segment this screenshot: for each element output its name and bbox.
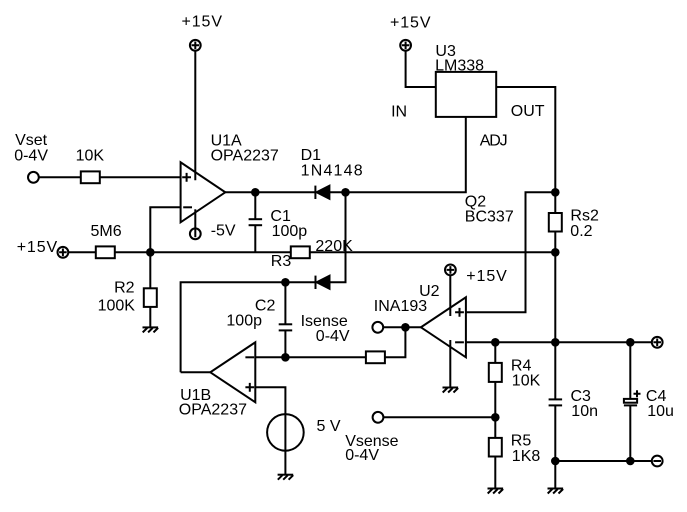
terminal output minus [652,456,663,467]
wire R2 to ground [149,307,151,328]
wire R2 top [149,252,151,288]
wire U2 ground pin [449,340,451,388]
wire Vsense [383,416,495,418]
wire LM338 OUT [496,87,555,192]
svg-text:R3: R3 [271,253,292,270]
terminal Vsense input [373,412,384,423]
svg-text:+15V: +15V [466,268,507,285]
node main rail meets - rail [551,338,560,347]
wire U2 output [383,326,421,328]
capacitor C4 polarized [624,342,641,461]
ground (U2) [443,388,459,393]
svg-text:0-4V: 0-4V [316,328,350,345]
node C3 bottom junction [551,457,560,466]
capacitor C2 [279,282,293,357]
svg-text:ADJ: ADJ [480,132,507,149]
wire resistor to U2 output [385,327,406,357]
svg-text:100K: 100K [98,298,136,315]
svg-text:R2: R2 [114,280,135,297]
U1A plus marker [182,173,191,182]
wire U1A V- pin [194,209,196,228]
power +15V terminal (left rail) [58,247,69,258]
wire U1B feedback rail [181,282,316,372]
wire U2 + sense [466,192,555,312]
wire 10K to U1A + input [100,176,181,178]
wire +15V to LM338 IN [406,51,436,87]
svg-text:0-4V: 0-4V [14,147,48,164]
svg-text:220K: 220K [315,238,353,255]
node U1B - junction [281,353,290,362]
resistor R3 [291,246,310,258]
wire U2 V+ supply [449,275,451,316]
svg-text:BC337: BC337 [465,209,514,226]
power -5V terminal [190,228,201,239]
source 5V [267,414,304,451]
node OUT rail junction [551,188,560,197]
svg-text:IN: IN [391,103,407,120]
power +15V terminal (U3 input) [400,40,411,51]
wire U1A V+ supply [194,51,196,181]
op-amp U2 [421,297,466,357]
power +15V terminal (U2 supply) [445,265,456,276]
wire +15V to 5M6 [68,251,96,253]
resistor Rs2 [549,213,562,232]
wire U1B output [181,371,211,373]
resistor R2 [144,288,157,307]
svg-text:5 V: 5 V [317,418,341,435]
resistor Isense series [366,351,385,363]
wire U1B - input [255,356,366,358]
wire R4 top [494,342,496,363]
U2 plus marker [455,308,464,317]
ground (R2) [143,327,159,332]
wire Rs2 bottom to C3 [554,232,556,400]
svg-text:10n: 10n [571,403,598,420]
resistor R5 [489,438,502,457]
svg-text:100p: 100p [226,313,262,330]
wire R5 to ground [494,457,496,489]
svg-text:+15V: +15V [390,15,431,32]
resistor 10K [81,171,100,183]
wire U1B + input [255,387,285,474]
resistor 5M6 [96,246,115,258]
svg-text:+15V: +15V [17,239,58,256]
svg-text:LM338: LM338 [435,58,484,75]
svg-text:1N4148: 1N4148 [301,163,364,180]
node U1A output junction [251,188,260,197]
wire Vset to R 10K [39,176,81,178]
diode D2 [316,276,330,289]
wire D2 anode up to diode junction [330,192,346,282]
svg-text:OUT: OUT [511,103,545,120]
svg-text:5M6: 5M6 [91,223,122,240]
svg-text:+15V: +15V [182,14,223,31]
svg-text:10K: 10K [76,147,105,164]
svg-text:OPA2237: OPA2237 [179,402,247,419]
node C4 bottom junction [626,457,635,466]
wire C3 bottom to ground rail [554,405,556,488]
wire D1 anode to junction [329,191,345,193]
terminal Vset input [28,172,39,183]
wire bottom output rail [555,460,652,462]
capacitor C3 [549,399,563,405]
resistor R4 [489,363,502,382]
power +15V terminal (U1A supply) [190,40,201,51]
ground (5V source) [278,475,294,480]
wire junction to LM338 ADJ [346,117,466,192]
node diode ladder junction [341,188,350,197]
wire U1A - input feedback [150,207,180,252]
node C4 top junction [626,338,635,347]
svg-text:OPA2237: OPA2237 [211,147,279,164]
wire U2 - input rail [466,341,652,343]
diode D1 [315,186,329,199]
node Vsense junction [491,413,500,422]
svg-text:0.2: 0.2 [570,223,592,240]
wire U1A output [225,191,315,193]
wire 5M6 to R3 [115,251,291,253]
op-amp U1B [210,342,255,402]
node Rs2 bottom junction [551,248,560,257]
U1B plus marker [245,383,254,392]
U1B minus marker [245,356,254,358]
op-amp U1A [181,162,226,222]
svg-text:10u: 10u [647,403,674,420]
wire R3 to output node [310,251,556,253]
svg-text:0-4V: 0-4V [345,447,379,464]
svg-text:100p: 100p [272,223,308,240]
wire Rs2 top [554,192,556,213]
U1A minus marker [183,206,192,208]
regulator U3 LM338 [436,72,496,117]
svg-text:D1: D1 [301,147,322,164]
svg-text:1K8: 1K8 [512,448,541,465]
terminal output plus [652,337,663,348]
node U2 output junction [401,323,410,332]
wire R4 bottom [494,382,496,438]
node R4 top junction [491,338,500,347]
terminal Isense output [372,322,383,333]
U2 minus marker [455,341,464,343]
node feedback rail junction [146,248,155,257]
ground (R5) [488,489,504,494]
ground (C3) [548,489,564,494]
svg-text:INA193: INA193 [374,298,427,315]
capacitor C1 [249,192,263,252]
svg-text:-5V: -5V [211,223,236,240]
svg-text:10K: 10K [512,373,541,390]
node C2 top junction [281,278,290,287]
